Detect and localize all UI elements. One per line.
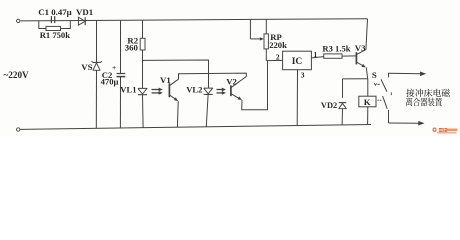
mechanical link dashes upper bbox=[374, 83, 391, 95]
pin number 2 bbox=[276, 52, 280, 61]
label VL2 bbox=[186, 85, 202, 95]
svg-text:+: + bbox=[112, 63, 116, 72]
LED VL1 (optocoupler 1 emitter) bbox=[138, 88, 147, 94]
svg-text:1: 1 bbox=[314, 50, 318, 59]
resistor R2 bbox=[140, 38, 145, 50]
label VS bbox=[81, 62, 92, 72]
svg-text:VS: VS bbox=[81, 62, 92, 72]
optocoupler 1 light arrows bbox=[152, 88, 163, 95]
resistor R1 bbox=[46, 26, 61, 30]
wire: C2 branch vertical bbox=[119, 20, 121, 128]
wire: V2 emitter to RP/IC pin2 node bbox=[242, 61, 268, 110]
label C2 bbox=[102, 70, 113, 80]
pin number 1 and wire to R3 bbox=[311, 57, 323, 58]
svg-text:220k: 220k bbox=[269, 40, 287, 50]
svg-text:R1 750k: R1 750k bbox=[40, 30, 71, 40]
svg-text:K: K bbox=[364, 97, 371, 107]
svg-text:VL1: VL1 bbox=[120, 85, 136, 95]
mechanical link dashes lower bbox=[377, 99, 381, 101]
transistor V3 bbox=[356, 50, 366, 68]
load description text line 1: 接冲床电磁 bbox=[406, 89, 450, 97]
svg-text:470µ: 470µ bbox=[101, 77, 119, 87]
svg-text:3: 3 bbox=[301, 70, 305, 79]
svg-text:~220V: ~220V bbox=[4, 70, 30, 80]
relay contact S upper blade bbox=[381, 73, 389, 92]
relay coil K bbox=[359, 96, 376, 107]
watermark small text rows bbox=[437, 129, 458, 134]
label VL1 bbox=[120, 85, 136, 95]
wire: R1 parallel branch bbox=[39, 21, 71, 29]
svg-text:2: 2 bbox=[276, 52, 280, 61]
label K bbox=[364, 97, 371, 107]
svg-text:VD1: VD1 bbox=[76, 7, 93, 17]
terminal: AC neutral input circle bbox=[17, 128, 20, 131]
wire: R3 to V3 base bbox=[342, 55, 356, 57]
svg-text:VL2: VL2 bbox=[186, 85, 202, 95]
wire: VS branch vertical bbox=[95, 20, 97, 128]
svg-text:S: S bbox=[372, 70, 377, 80]
resistor R3 bbox=[324, 54, 342, 58]
svg-text:VD2: VD2 bbox=[321, 101, 337, 110]
wire: VD2 branch vertical top bbox=[342, 79, 344, 98]
label R2 bbox=[127, 35, 138, 45]
svg-text:V2: V2 bbox=[226, 76, 237, 86]
label S bbox=[372, 70, 377, 80]
watermark logo (orange) bbox=[433, 128, 437, 132]
label V3 bbox=[355, 43, 366, 53]
wire: node to VL2 anode (horizontal) bbox=[143, 60, 209, 88]
zener diode VS bbox=[92, 61, 102, 70]
wire: K to bottom rail bbox=[367, 107, 369, 125]
label + polarity C2 bbox=[112, 63, 116, 72]
wire: V3 emitter down to VD2/K node bbox=[366, 68, 367, 79]
svg-text:V1: V1 bbox=[160, 75, 171, 85]
label V1 bbox=[160, 75, 171, 85]
relay contact S lower blade bbox=[383, 96, 389, 123]
label RP bbox=[270, 32, 281, 42]
label V2 bbox=[226, 76, 237, 86]
wire: RP bottom lead to pin2 node and IC pin 2 bbox=[266, 49, 282, 61]
label VD1 bbox=[76, 7, 93, 17]
svg-text:360: 360 bbox=[125, 42, 139, 52]
label 360 bbox=[125, 42, 139, 52]
label VD2 bbox=[321, 101, 337, 110]
wire: VD2 to bottom rail bbox=[341, 109, 343, 125]
label C1 0.47µ bbox=[38, 7, 71, 17]
wire: top rail from AC input to V3 collector corner bbox=[20, 19, 367, 21]
optocoupler 2 light arrows bbox=[217, 88, 227, 95]
label R3 1.5k bbox=[322, 44, 350, 54]
pin number 3 and wire to bottom rail bbox=[296, 70, 298, 126]
capacitor C2 electrolytic bbox=[117, 74, 126, 77]
diode VD1 bbox=[78, 17, 85, 25]
wire: RP wiper tie to top rail with arrow bbox=[250, 19, 264, 40]
capacitor C1 (on top wire) bbox=[51, 16, 54, 23]
watermark bold characters bbox=[439, 128, 447, 132]
wire: output arrow lower bbox=[389, 121, 425, 126]
label 470µ bbox=[101, 77, 119, 87]
wire: node horizontal VD2 to K bbox=[343, 78, 368, 80]
wire: VL1 cathode to bottom rail bbox=[142, 95, 145, 128]
diode VD2 (freewheel) bbox=[339, 103, 347, 109]
phototransistor V1 bbox=[169, 79, 178, 101]
wire: VL2 cathode to bottom rail bbox=[206, 95, 208, 127]
svg-text:V3: V3 bbox=[355, 43, 366, 53]
op-amp IC (block) bbox=[283, 51, 312, 69]
potentiometer RP body bbox=[264, 34, 268, 49]
wire: output arrow upper bbox=[389, 72, 427, 77]
phototransistor V2 bbox=[231, 77, 246, 101]
terminal: AC live input circle bbox=[17, 19, 20, 22]
LED VL2 (optocoupler 2 emitter) bbox=[204, 88, 213, 94]
svg-text:IC: IC bbox=[292, 57, 303, 67]
label IC bbox=[292, 57, 303, 67]
svg-text:C1 0.47µ: C1 0.47µ bbox=[38, 7, 71, 17]
label R1 750k bbox=[40, 30, 71, 40]
wire: bottom rail from AC neutral input to relay K bottom bbox=[20, 125, 371, 130]
wire: top rail corner down to V3 collector bbox=[366, 19, 368, 50]
wire: V1 collector up and collector net to V2 bbox=[179, 73, 247, 79]
label 220k bbox=[269, 40, 287, 50]
wire: V1 emitter to bottom rail bbox=[176, 101, 179, 127]
wire: RP top lead bbox=[265, 19, 267, 34]
wire: R2 bottom to VL1 anode node bbox=[142, 50, 144, 88]
wire: K branch vertical top bbox=[367, 79, 369, 96]
svg-text:R3 1.5k: R3 1.5k bbox=[322, 44, 350, 54]
wire: R2 branch from top rail bbox=[142, 20, 144, 38]
label ~220V bbox=[4, 70, 30, 80]
load description text line 2: 离合器装置 bbox=[406, 98, 442, 107]
